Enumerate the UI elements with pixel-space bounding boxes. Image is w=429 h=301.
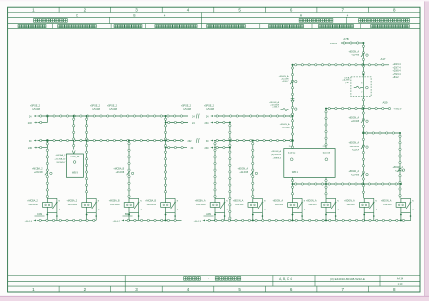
svg-text:+30-0.7: +30-0.7 [113,221,121,223]
svg-text:1/5-W8: 1/5-W8 [206,108,214,111]
svg-text:+20-W08: +20-W08 [68,204,78,206]
svg-text:+22-W08: +22-W08 [350,146,360,148]
svg-text:+MCBA_B: +MCBA_B [109,200,120,203]
svg-text:+45/L8: +45/L8 [330,43,338,45]
svg-text:2: 2 [361,91,362,93]
svg-text:B: B [133,13,135,17]
svg-text:WB 1: WB 1 [292,171,299,174]
svg-text:-: - [208,277,209,281]
svg-text:+76/3.9: +76/3.9 [394,109,402,111]
svg-text:+30-2.4: +30-2.4 [25,221,33,223]
svg-text:A17: A17 [381,57,386,61]
svg-text:+33/L7: +33/L7 [282,81,290,83]
svg-text:+MCBA_B: +MCBA_B [113,168,124,171]
svg-text:A59: A59 [383,101,388,105]
svg-text:+8DGN_A: +8DGN_A [237,168,248,171]
svg-text:+8DGN_A: +8DGN_A [348,50,359,53]
svg-text:+22-W8: +22-W8 [235,204,244,206]
svg-text:+8DGN_A: +8DGN_A [271,150,282,153]
svg-text:234: 234 [205,122,210,125]
svg-text:C09: C09 [37,212,42,216]
svg-text:1:10: 1:10 [398,283,403,286]
svg-text:+33/L7: +33/L7 [272,107,280,109]
svg-text:+8DGN_A: +8DGN_A [381,200,392,203]
svg-text:+22-W8: +22-W8 [347,204,356,206]
svg-text:A, B, C 4: A, B, C 4 [279,277,292,281]
svg-text:+8DGN_A: +8DGN_A [392,166,403,169]
svg-text:+22-W8: +22-W8 [282,127,291,129]
svg-text:+23-F08: +23-F08 [116,172,125,174]
svg-text:+8DGN_A: +8DGN_A [348,170,359,173]
svg-text:+22-W8: +22-W8 [275,204,284,206]
svg-text:+20-W08: +20-W08 [110,204,120,206]
svg-text:+20-W08: +20-W08 [28,204,38,206]
svg-text:+41-WA-02: +41-WA-02 [54,157,66,160]
svg-text:+20-W08: +20-W08 [196,204,206,206]
svg-text:+22-W8: +22-W8 [395,170,404,172]
svg-text:+MCBA_2: +MCBA_2 [27,200,38,203]
svg-text:+8DGN_A: +8DGN_A [272,200,283,203]
svg-text:+22-W8: +22-W8 [383,204,392,206]
svg-text:B0B: B0B [125,212,130,216]
svg-text:A09: A09 [206,212,211,216]
svg-text:+22-W8: +22-W8 [308,204,317,206]
svg-text:+20-W08: +20-W08 [147,204,157,206]
svg-text:1/5-W8: 1/5-W8 [109,108,117,111]
svg-text:+8DGN_A: +8DGN_A [233,200,244,203]
svg-text:20X: 20X [28,122,33,125]
svg-text:E10.08: E10.08 [323,152,331,154]
svg-text:+MCBA_2: +MCBA_2 [67,200,78,203]
svg-text:+MCBA_B: +MCBA_B [145,200,156,203]
svg-text:8: 8 [361,83,362,85]
svg-text:A7B: A7B [343,37,348,41]
svg-text:(8)-W6.08: (8)-W6.08 [271,154,282,156]
svg-text:+30-1.9: +30-1.9 [194,221,202,223]
svg-text:CXW_08: CXW_08 [71,156,81,158]
svg-text:+8DGN_A: +8DGN_A [344,200,355,203]
svg-text:+22-W8: +22-W8 [351,174,360,176]
svg-text:+22-W8: +22-W8 [351,121,360,123]
svg-text:+22-F08: +22-F08 [239,172,248,174]
svg-text:E10.02: E10.02 [288,152,296,154]
svg-text:292: 292 [188,140,193,143]
svg-text:+8DGN_A: +8DGN_A [348,142,359,145]
svg-text:1/5-W8: 1/5-W8 [183,108,191,111]
svg-text:+MCBA_2: +MCBA_2 [55,154,66,157]
svg-text:+8DGN_A: +8DGN_A [306,200,317,203]
svg-text:230: 230 [28,147,33,150]
svg-text:1/5-W8: 1/5-W8 [32,108,40,111]
svg-text:(3) E44010-80108-5222-E: (3) E44010-80108-5222-E [330,277,365,281]
svg-text:230: 230 [205,147,210,150]
svg-text:+MCBA_2: +MCBA_2 [32,168,43,171]
svg-text:+8/L2: +8/L2 [393,76,400,79]
svg-text:+22/L4: +22/L4 [352,149,360,151]
svg-text:+MCBA_A: +MCBA_A [195,200,206,203]
svg-text:+8DGN_A: +8DGN_A [279,123,290,126]
svg-text:+8DGN_A: +8DGN_A [348,116,359,119]
svg-text:WCB/8-7: WCB/8-7 [57,162,67,164]
svg-text:1/5-W8: 1/5-W8 [92,108,100,111]
svg-text:WB 9: WB 9 [72,171,79,174]
svg-text:+20-R8: +20-R8 [351,55,359,57]
svg-text:A4 34: A4 34 [397,277,404,280]
svg-text:+WE/8.4: +WE/8.4 [273,158,282,160]
svg-text:+23-F08: +23-F08 [34,172,43,174]
